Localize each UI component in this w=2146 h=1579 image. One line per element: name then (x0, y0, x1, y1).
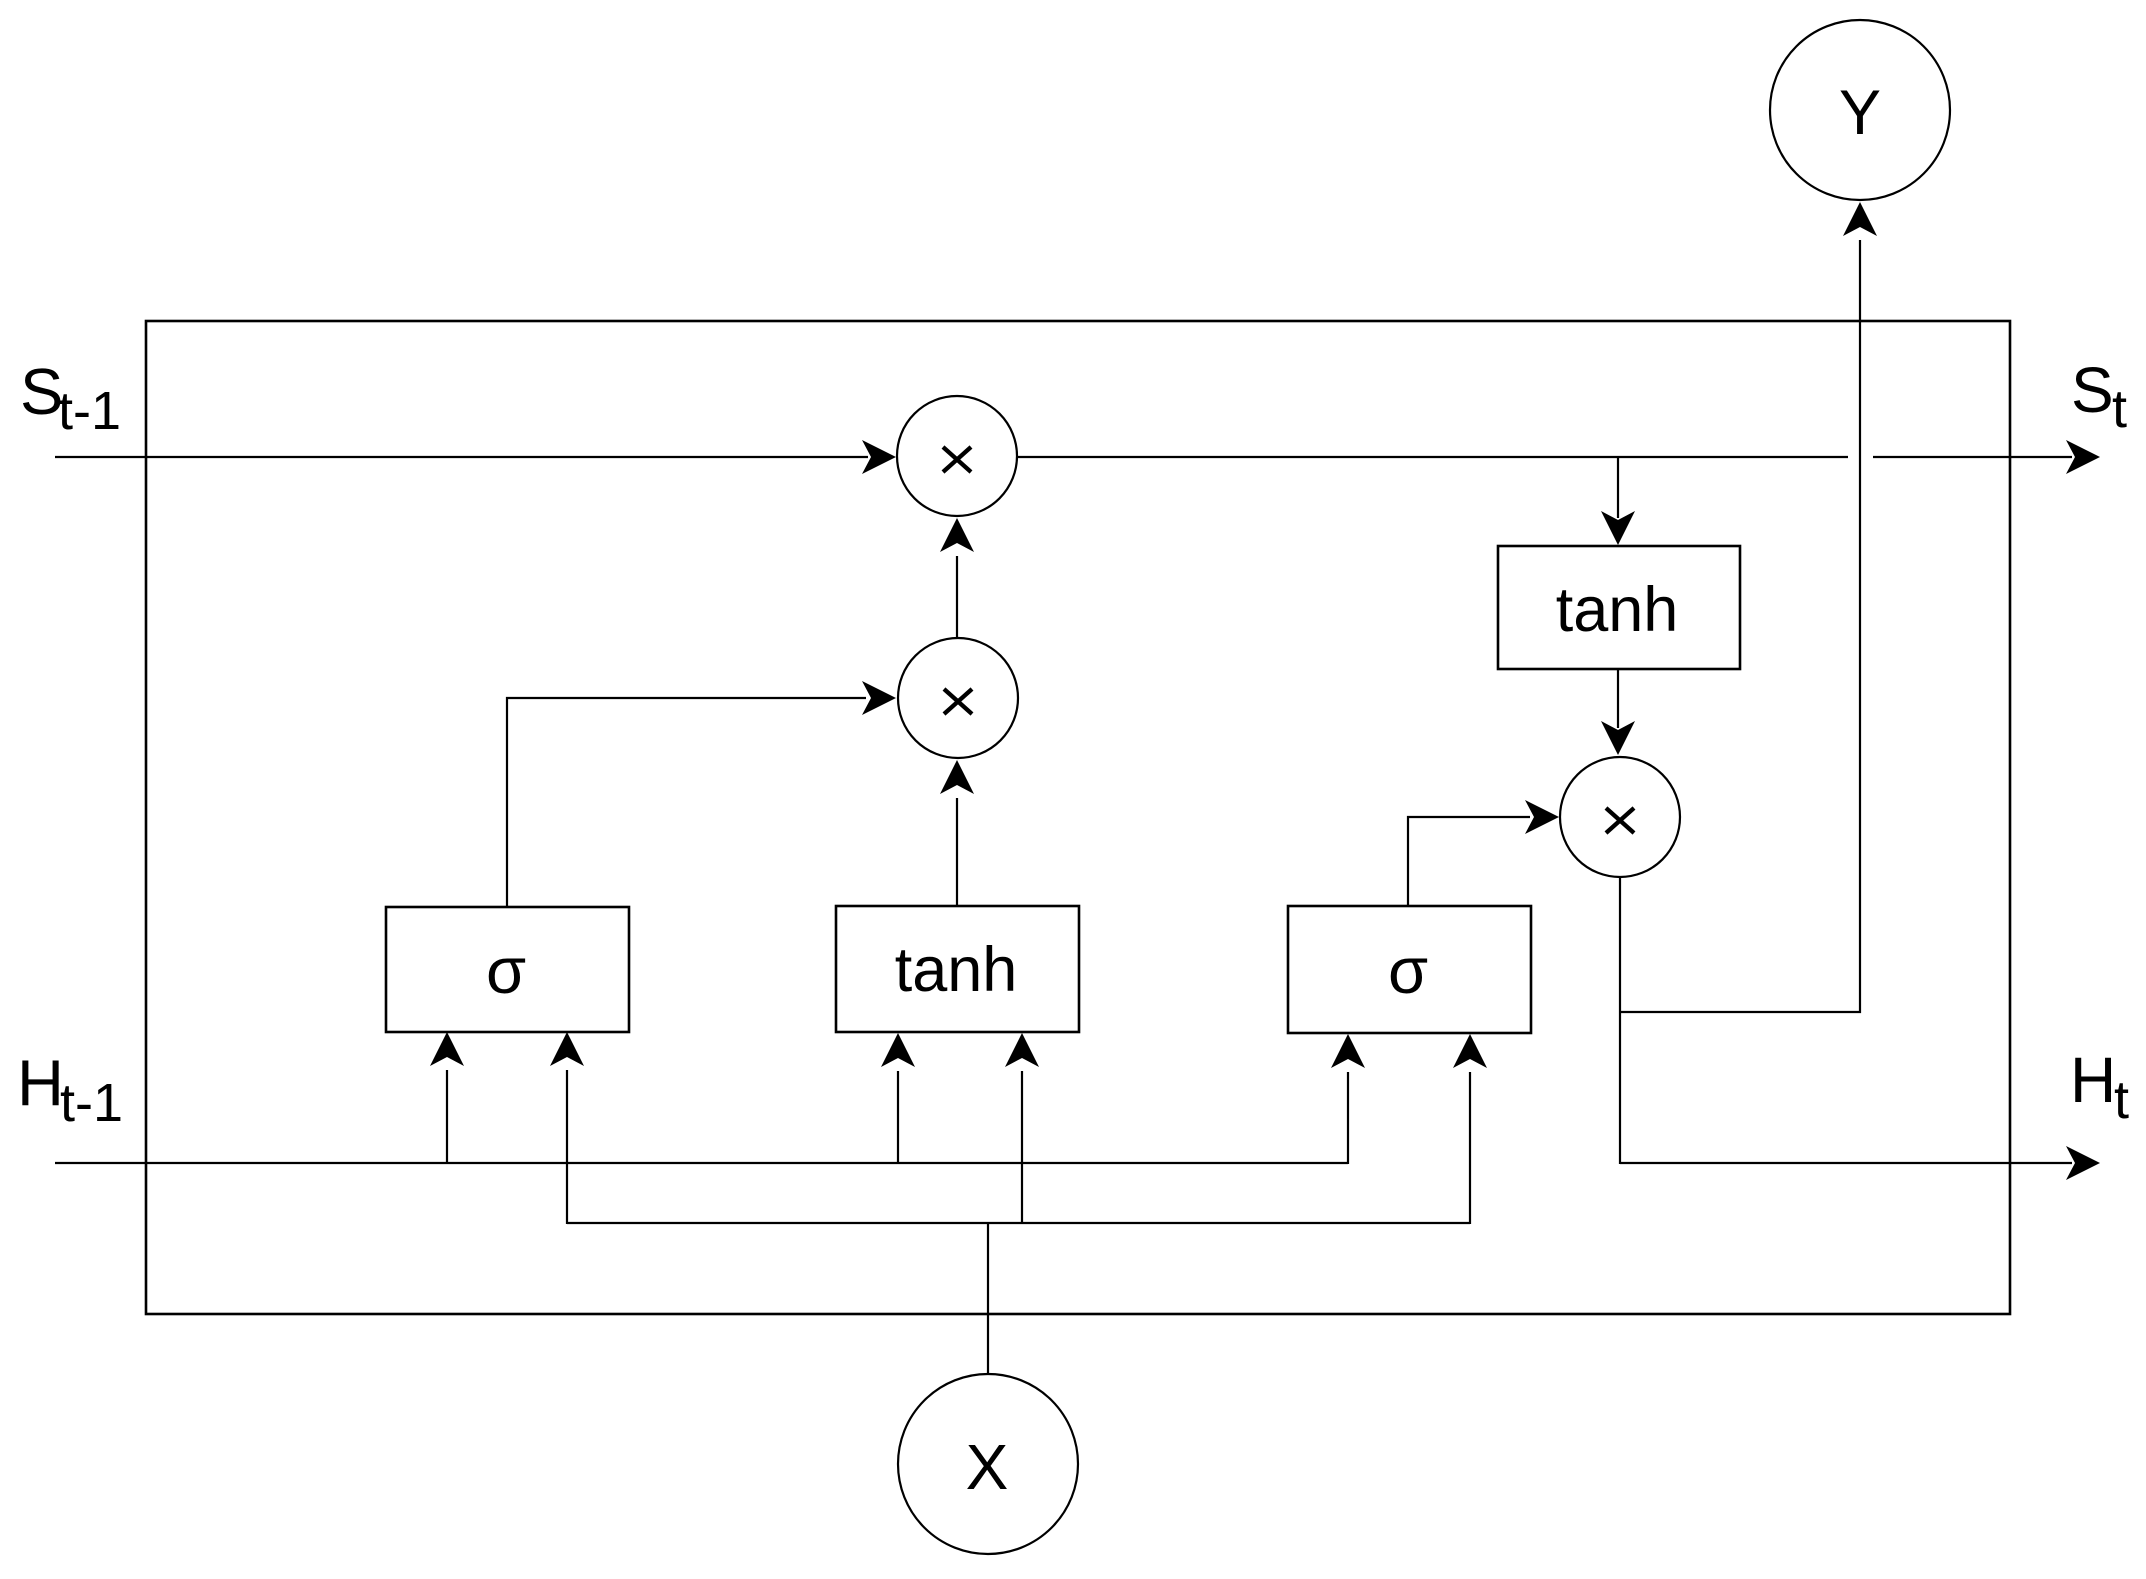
wire M3 output down (1619, 877, 1621, 1164)
multiply node M3 (1560, 757, 1680, 877)
wire M2 to M1 (940, 518, 974, 637)
wire S-out (M1 to St, gap where Y wire crosses) (1018, 440, 2100, 474)
svg-text:t-1: t-1 (60, 1073, 123, 1133)
tanh box U4 (1498, 546, 1740, 669)
wire sigma1 right input from X line (550, 1032, 584, 1224)
wire sigma3 right input from X line (1453, 1034, 1487, 1224)
wire S-in (St-1 to M1) (55, 440, 896, 474)
svg-text:tanh: tanh (895, 935, 1018, 1005)
wire X riser (987, 1223, 989, 1374)
svg-text:S: S (20, 355, 63, 428)
wire Y branch up to output node (1620, 202, 1877, 1012)
svg-text:S: S (2071, 354, 2114, 426)
svg-text:Y: Y (1839, 78, 1881, 148)
label Ht-1 (17, 1046, 123, 1133)
multiply node M2 (898, 638, 1018, 758)
wire sigma3 to M3 elbow (1408, 800, 1559, 906)
svg-text:tanh: tanh (1556, 575, 1679, 645)
multiply node M1 (897, 396, 1017, 516)
svg-text:t: t (2114, 1070, 2129, 1130)
wire X distribution line (567, 1222, 1470, 1224)
svg-text:X: X (966, 1431, 1009, 1503)
label St (2071, 354, 2127, 439)
wire tanh2 left input from H line (881, 1033, 915, 1163)
svg-text:σ: σ (1388, 934, 1428, 1007)
output node Y (1770, 20, 1950, 200)
wire tanh2 to M2 (940, 760, 974, 906)
wire tanh2 right input from X line (1005, 1033, 1039, 1224)
sigma box G1 (386, 907, 629, 1032)
wire S branch down to tanh U4 (1601, 458, 1635, 545)
wire sigma1 left input from H line (430, 1032, 464, 1163)
wire H-out (to Ht) (1620, 1146, 2100, 1180)
wire U4 to M3 (1601, 669, 1635, 755)
wire H-in (Ht-1 line) (55, 1034, 1365, 1164)
label Ht (2070, 1044, 2129, 1130)
input node X (898, 1374, 1078, 1554)
svg-text:σ: σ (486, 934, 526, 1007)
svg-text:t-1: t-1 (58, 381, 121, 441)
label St-1 (20, 355, 121, 441)
svg-text:H: H (17, 1046, 64, 1119)
svg-text:t: t (2112, 379, 2127, 439)
tanh box G2 (836, 906, 1079, 1032)
cell boundary box (146, 321, 2010, 1314)
sigma box G3 (1288, 906, 1531, 1033)
wire sigma1 to M2 elbow (507, 681, 896, 907)
svg-text:H: H (2070, 1044, 2116, 1116)
